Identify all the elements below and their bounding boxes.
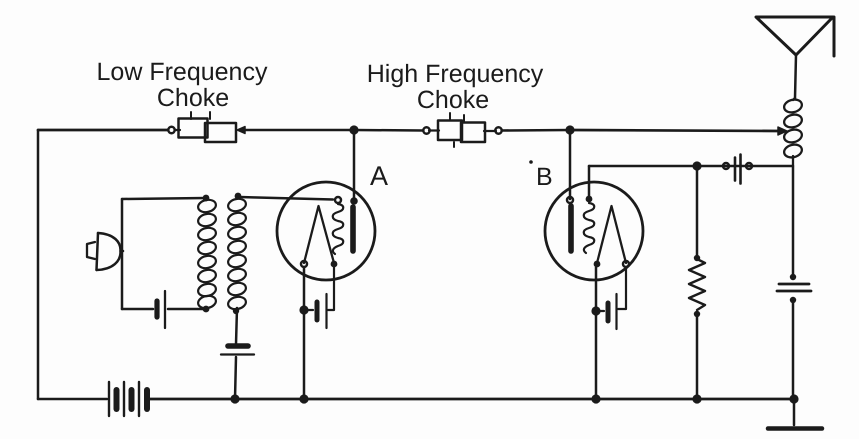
node junction dot rail below tube B: [591, 394, 600, 403]
tube A plate P: [350, 197, 358, 251]
transformer T1 primary winding: [197, 195, 217, 313]
wire top rail: node B to antenna coil tap arrow: [570, 127, 787, 135]
node junction dot rail at C-battery: [230, 394, 239, 403]
battery phone-circuit cell: [157, 291, 165, 328]
battery C-bias cell: [221, 346, 254, 355]
svg-text:B: B: [536, 163, 553, 191]
battery tube B filament cell: [598, 267, 626, 329]
tube A grid G: [333, 197, 344, 254]
svg-text:Choke: Choke: [157, 84, 229, 112]
ground: [768, 399, 822, 429]
wire tube B plate riser: [569, 130, 572, 199]
capacitor C1 (grid condenser): [723, 155, 752, 184]
node dot on tube B left leg: [591, 306, 600, 315]
svg-text:Choke: Choke: [417, 86, 489, 114]
battery B1 (A-battery): [109, 382, 147, 416]
wire phone branch top: [122, 198, 206, 199]
wire bottom rail main segment: [150, 398, 794, 401]
wire tube B grid riser: [588, 166, 591, 197]
wire antenna lead-in: [795, 55, 796, 98]
svg-text:Low Frequency: Low Frequency: [97, 58, 268, 86]
inductor HF choke body: [423, 113, 501, 147]
wire phone branch vertical: [121, 199, 124, 309]
phone (earpiece): [87, 233, 123, 270]
battery tube A filament cell: [306, 267, 334, 328]
tube B plate P: [567, 197, 573, 251]
wire phone branch bottom right: [168, 308, 206, 311]
label B (tube B): [529, 160, 552, 191]
node junction top wire above tube A: [349, 125, 358, 134]
wire top rail: node A to HF choke: [354, 129, 423, 132]
capacitor C2 (antenna series condenser): [777, 166, 811, 399]
node junction dot rail below resistor: [692, 394, 701, 403]
transformer T1 secondary winding: [227, 193, 247, 311]
wire phone branch bottom left: [122, 308, 153, 311]
wire top rail: HF choke to node B: [502, 129, 570, 132]
wire tube A plate riser: [353, 130, 356, 200]
wire tube B filament left leg: [595, 267, 598, 399]
node dot on tube A left leg: [299, 305, 308, 314]
wire tube A filament left leg: [303, 267, 306, 399]
node junction dot rail at ground: [789, 394, 798, 403]
node junction dot at resistor top: [692, 161, 701, 170]
tube B grid G: [584, 196, 595, 253]
svg-text:High Frequency: High Frequency: [367, 60, 544, 88]
wire tube A grid lead from transformer: [240, 197, 333, 200]
wire top rail: LF choke to node A: [244, 129, 354, 132]
wire secondary bottom lead: [236, 308, 237, 344]
tube A envelope: [277, 182, 375, 280]
node junction dot rail below tube A: [299, 394, 308, 403]
wire C-bias to rail: [235, 357, 236, 399]
tube B envelope: [545, 182, 643, 280]
node junction top wire above tube B: [565, 125, 574, 134]
wire top rail: left rail to LF choke: [38, 129, 168, 132]
antenna: [756, 17, 834, 56]
wire grid-cap line y166: [589, 165, 792, 168]
tube B filament: [594, 206, 629, 267]
resistor R1: [689, 166, 705, 399]
svg-text:A: A: [370, 161, 388, 191]
tube A filament: [301, 206, 337, 267]
inductor antenna coil L1: [783, 98, 803, 166]
wire bottom rail left segment: [38, 398, 107, 401]
wire left rail: [37, 130, 40, 399]
inductor LF choke body: [168, 112, 245, 142]
